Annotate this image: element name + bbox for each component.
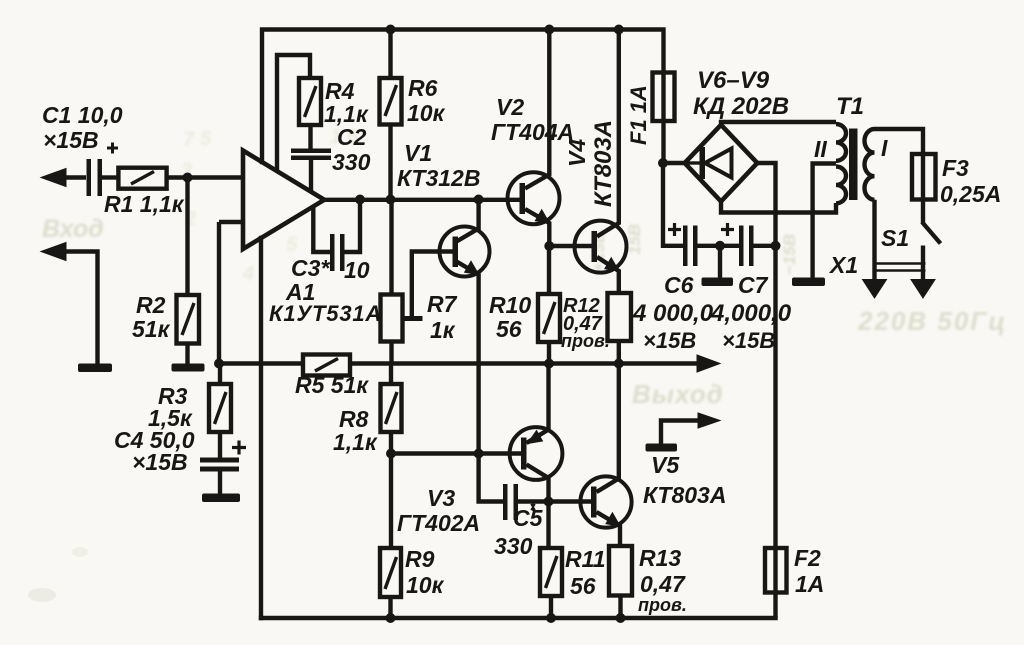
node: top rail R6 bbox=[386, 25, 396, 35]
mains plug pin arrows X1 bbox=[863, 280, 936, 299]
node: bottom rail R11 bbox=[546, 613, 556, 623]
wire: V2 emitter to V4 base bbox=[549, 244, 591, 248]
svg-text:F3: F3 bbox=[942, 155, 969, 181]
svg-text:С3*: С3* bbox=[291, 255, 330, 281]
resistor R8 bbox=[381, 364, 402, 454]
wire: inverting input down to feedback bus bbox=[217, 222, 221, 364]
wire: V3 base line bbox=[391, 451, 521, 455]
transistor V5 KT803A bbox=[580, 364, 631, 547]
node: C7 right / negative rail bbox=[771, 241, 781, 251]
node: V1 emitter junction bbox=[474, 449, 484, 459]
svg-text:0,25А: 0,25А bbox=[940, 181, 1001, 207]
svg-text:ГТ404А: ГТ404А bbox=[491, 119, 574, 145]
wire: to V5 base bbox=[549, 499, 592, 503]
capacitor C5 bbox=[479, 454, 549, 521]
transistor V4 KT803A bbox=[575, 30, 627, 294]
resistor R7 with tap bbox=[381, 200, 454, 364]
capacitor C4 bbox=[200, 441, 246, 495]
wire: feedback / output bus bbox=[219, 361, 698, 365]
svg-text:I: I bbox=[881, 135, 888, 161]
fuse F3 bbox=[912, 154, 936, 200]
resistor R2 bbox=[177, 295, 200, 364]
resistor R3 bbox=[209, 364, 231, 459]
node: V1 collector on output line bbox=[474, 195, 484, 205]
node: F1 bottom / bridge left / C6 bbox=[658, 158, 668, 168]
svg-text:4,000,0: 4,000,0 bbox=[710, 300, 792, 327]
svg-text:КТ803А: КТ803А bbox=[643, 482, 726, 508]
node: bottom rail R13 bbox=[616, 613, 626, 623]
input arrow upper bbox=[41, 169, 86, 187]
svg-text:51к: 51к bbox=[132, 316, 171, 342]
svg-text:4 000,0: 4 000,0 bbox=[632, 300, 714, 327]
svg-text:R9: R9 bbox=[405, 546, 435, 572]
diode bridge V6-V9 KD202V bbox=[685, 125, 758, 202]
svg-text:С7: С7 bbox=[738, 272, 769, 298]
wire: C6 left lead from F1 node bbox=[663, 163, 683, 246]
wire: bottom rail bbox=[261, 616, 776, 620]
svg-text:Выход: Выход bbox=[632, 379, 724, 409]
switch S1 bbox=[875, 200, 941, 283]
transformer T1 secondary winding II with center tap bbox=[813, 124, 846, 278]
transformer T1 primary winding I bbox=[865, 129, 924, 200]
op-amp U1 (A1 K1UT531) bbox=[219, 151, 324, 250]
svg-text:R7: R7 bbox=[427, 291, 458, 317]
svg-text:V5: V5 bbox=[651, 452, 680, 478]
node: top rail V4 collector bbox=[614, 25, 624, 35]
transistor V2 GT404A bbox=[508, 30, 560, 247]
svg-text:пров.: пров. bbox=[638, 595, 687, 615]
node: inverting input / R3 bbox=[214, 359, 224, 369]
svg-text:7: 7 bbox=[183, 129, 195, 151]
node: C6/C7 midpoint bbox=[715, 241, 725, 251]
svg-text:V3: V3 bbox=[427, 485, 455, 511]
svg-text:С1 10,0: С1 10,0 bbox=[42, 102, 123, 128]
svg-text:R11: R11 bbox=[565, 546, 606, 572]
wire: op-amp output line to V2 base bbox=[324, 198, 520, 202]
faint page smudges bbox=[28, 588, 56, 602]
label C1 value bbox=[42, 102, 123, 153]
ghost pin digits bbox=[181, 126, 359, 285]
svg-text:R2: R2 bbox=[136, 292, 166, 318]
resistor R4 with bracket to op-amp correction pin bbox=[277, 55, 321, 170]
wire: to bridge left vertex bbox=[663, 161, 685, 165]
svg-text:220В 50Гц: 220В 50Гц bbox=[857, 306, 1007, 336]
svg-text:ГТ402А: ГТ402А bbox=[397, 510, 480, 536]
svg-text:V2: V2 bbox=[496, 94, 524, 120]
fuse F2 bbox=[765, 548, 787, 618]
transistor V1 KT312V bbox=[440, 200, 490, 454]
output terminal arrow with ground bar bbox=[646, 413, 721, 452]
svg-text:1к: 1к bbox=[430, 317, 456, 343]
capacitor C1 bbox=[87, 143, 119, 197]
wire: bridge right vertex down to C7 node and F2 bbox=[757, 163, 775, 548]
node: R1 / R2 junction bbox=[183, 173, 193, 183]
ground bar at input shield bbox=[78, 364, 112, 373]
svg-text:Т1: Т1 bbox=[836, 93, 864, 120]
svg-text:×15В: ×15В bbox=[43, 127, 99, 153]
svg-text:10к: 10к bbox=[407, 100, 446, 126]
svg-text:F1 1А: F1 1А bbox=[626, 85, 651, 145]
svg-text:330: 330 bbox=[332, 149, 371, 175]
svg-text:КД 202В: КД 202В bbox=[693, 93, 789, 120]
svg-text:4: 4 bbox=[242, 263, 254, 285]
svg-text:R10: R10 bbox=[489, 292, 531, 318]
svg-text:×15В: ×15В bbox=[132, 449, 188, 475]
svg-text:−15В: −15В bbox=[780, 234, 799, 275]
node: bottom rail R9 bbox=[386, 613, 396, 623]
input arrow lower bbox=[41, 243, 98, 365]
resistor R10 bbox=[538, 246, 560, 364]
svg-text:КТ312В: КТ312В bbox=[397, 165, 480, 191]
svg-text:Х1: Х1 bbox=[828, 252, 858, 278]
svg-text:1А: 1А bbox=[795, 571, 824, 597]
svg-text:V4: V4 bbox=[564, 139, 590, 167]
svg-text:×15В: ×15В bbox=[722, 328, 775, 353]
ground bar under C4 bbox=[202, 494, 240, 503]
svg-text:R5 51к: R5 51к bbox=[295, 372, 369, 398]
svg-text:II: II bbox=[814, 136, 827, 162]
capacitor C7 bbox=[721, 223, 776, 266]
node: R12 bottom / V5 collector on bus bbox=[614, 359, 624, 369]
svg-text:С6: С6 bbox=[664, 272, 694, 298]
node: V3 collector / C5 / V5 base bbox=[544, 497, 554, 507]
svg-text:S1: S1 bbox=[881, 225, 909, 251]
svg-text:0,47: 0,47 bbox=[640, 571, 686, 597]
svg-text:56: 56 bbox=[570, 573, 596, 599]
svg-text:С2: С2 bbox=[337, 124, 367, 150]
wire: R2 lead down bbox=[185, 178, 189, 296]
wire: left rail from op-amp bottom pin to bottom rail bbox=[259, 238, 263, 618]
node: R6/R7 on output line bbox=[386, 195, 396, 205]
transistor V3 GT402A (PNP) bbox=[510, 364, 563, 549]
svg-text:Вход: Вход bbox=[42, 215, 104, 243]
resistor R13 (wirewound, no slash) bbox=[609, 546, 632, 618]
svg-text:С5: С5 bbox=[513, 505, 544, 531]
svg-text:56: 56 bbox=[496, 316, 522, 342]
resistor R9 bbox=[380, 454, 401, 619]
node: C3 to output line bbox=[355, 195, 365, 205]
ground bar below C6/C7 midpoint bbox=[702, 246, 734, 286]
svg-text:R13: R13 bbox=[639, 545, 681, 571]
wire: top supply rail bbox=[262, 30, 664, 163]
transformer T1 core bbox=[849, 129, 858, 201]
svg-text:1,1к: 1,1к bbox=[333, 429, 378, 455]
svg-text:V1: V1 bbox=[404, 140, 432, 166]
node: top rail V2 collector bbox=[544, 25, 554, 35]
svg-text:F2: F2 bbox=[794, 545, 821, 571]
capacitor C2 bbox=[291, 149, 331, 193]
ground bar X1 chassis bbox=[792, 278, 825, 287]
wire: bridge top vertex to transformer secondary top bbox=[721, 122, 836, 125]
svg-text:5: 5 bbox=[286, 234, 298, 256]
resistor R1 bbox=[118, 168, 243, 189]
fuse F1 bbox=[653, 73, 675, 164]
svg-text:10к: 10к bbox=[406, 572, 445, 598]
svg-text:КТ803А: КТ803А bbox=[590, 120, 617, 207]
resistor R6 bbox=[380, 30, 402, 200]
node: V2 emitter / V4 base / R10 bbox=[544, 241, 554, 251]
svg-text:×15В: ×15В bbox=[643, 328, 696, 353]
node: R8 bottom / R9 / V3 base line bbox=[386, 449, 396, 459]
output arrow (Vyhod) bbox=[697, 355, 720, 372]
svg-text:5: 5 bbox=[200, 128, 212, 150]
svg-text:10: 10 bbox=[344, 257, 370, 283]
wire: bridge bottom vertex to transformer secondary bottom bbox=[721, 201, 836, 212]
svg-text:R1 1,1к: R1 1,1к bbox=[104, 191, 185, 217]
svg-text:V6–V9: V6–V9 bbox=[697, 67, 770, 94]
node: R10 bottom on bus bbox=[544, 359, 554, 369]
resistor R12 (wirewound, no slash) bbox=[608, 293, 632, 364]
capacitor C6 bbox=[668, 223, 739, 266]
ground bar under R2 bbox=[172, 364, 205, 372]
svg-text:330: 330 bbox=[494, 533, 533, 559]
svg-text:R6: R6 bbox=[408, 75, 438, 101]
svg-text:пров.: пров. bbox=[561, 331, 610, 351]
capacitor C3 (correction) bbox=[313, 200, 360, 272]
resistor R11 bbox=[540, 548, 562, 618]
svg-text:К1УТ531А: К1УТ531А bbox=[269, 301, 382, 326]
resistor R5 (feedback) bbox=[303, 355, 350, 376]
